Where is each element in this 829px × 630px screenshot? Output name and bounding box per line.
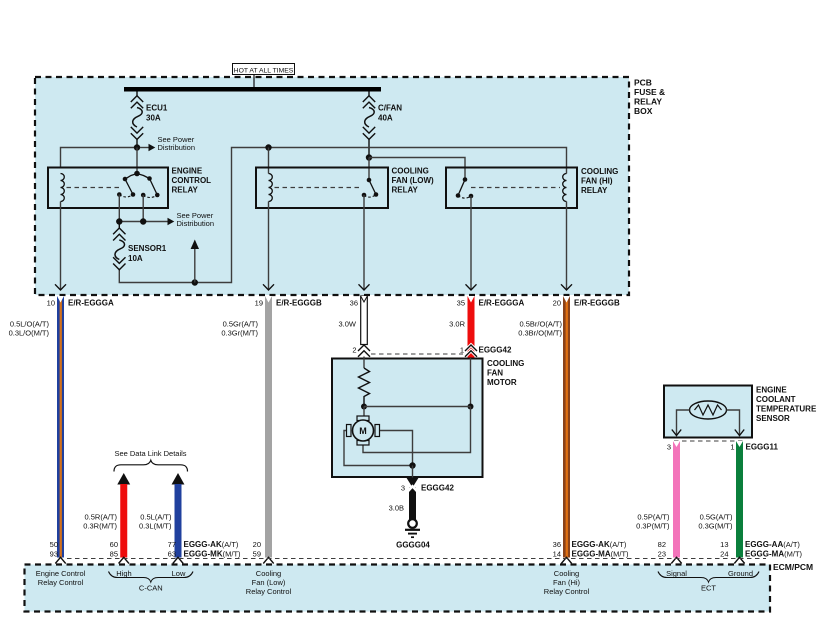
svg-text:E/R-EGGGA: E/R-EGGGA (68, 299, 114, 308)
node: junction on sensor1 loop (192, 279, 198, 285)
svg-text:0.3Br/O(M/T): 0.3Br/O(M/T) (518, 329, 562, 338)
svg-text:EGGG11: EGGG11 (746, 443, 779, 452)
svg-text:EGGG-AA(A/T): EGGG-AA(A/T) (745, 540, 800, 549)
svg-text:0.5Gr(A/T): 0.5Gr(A/T) (223, 320, 259, 329)
PCB fuse & relay box (35, 77, 665, 295)
svg-text:COOLING: COOLING (581, 167, 618, 176)
svg-text:13: 13 (720, 540, 728, 549)
wire: junction bar in motor (364, 406, 471, 408)
svg-text:Relay Control: Relay Control (544, 587, 590, 596)
svg-text:FAN (LOW): FAN (LOW) (392, 176, 435, 185)
motor connector pin 2 chevrons (358, 345, 370, 357)
wire: motor right tab to output (380, 431, 413, 466)
svg-text:C/FAN: C/FAN (378, 104, 402, 113)
wire W5: brown/orange 0.5Br/O from pin 20 to ECM pin 36/14 (561, 296, 571, 565)
svg-text:40A: 40A (378, 114, 393, 123)
motor connector pin 3 black arrow (406, 478, 418, 488)
wire: low relay coil down to pin 19 (268, 202, 270, 291)
engine coolant temperature sensor box (664, 386, 817, 438)
svg-text:0.3P(M/T): 0.3P(M/T) (636, 522, 670, 531)
motor connector dashed line (371, 353, 463, 355)
svg-text:EGGG-MA(M/T): EGGG-MA(M/T) (572, 550, 630, 559)
svg-text:0.5Br/O(A/T): 0.5Br/O(A/T) (519, 320, 562, 329)
svg-text:0.3L/O(M/T): 0.3L/O(M/T) (9, 329, 50, 338)
fuse C/FAN 40A (363, 92, 375, 158)
svg-text:59: 59 (253, 550, 261, 559)
switch contacts engine relay (134, 171, 140, 177)
wire: engine relay coil down to pin 10 (60, 202, 62, 291)
svg-text:0.5L(A/T): 0.5L(A/T) (140, 513, 172, 522)
svg-text:EGGG-MK(M/T): EGGG-MK(M/T) (184, 550, 242, 559)
svg-text:COOLANT: COOLANT (756, 395, 796, 404)
wire W1: blue/orange 0.5L/O from pin 10 to ECM pin 50/93 (55, 296, 65, 565)
svg-text:FUSE &: FUSE & (634, 87, 665, 97)
wire: rail down to low relay coil (268, 148, 270, 174)
wire W10: blue C-CAN low to ECM pin 77/63 (172, 473, 185, 565)
wire: sensor1 output loop up and right to relay coils (119, 148, 566, 283)
svg-text:2: 2 (352, 346, 356, 355)
wire: low relay contact down to pin 36 (363, 195, 365, 290)
sensor connector dashed line (674, 440, 744, 442)
cooling fan motor box (332, 359, 524, 478)
wire: sensor right lead to pin 1 (727, 410, 740, 435)
svg-text:RELAY: RELAY (172, 186, 199, 195)
bus bar (124, 87, 381, 92)
svg-text:3: 3 (667, 443, 671, 452)
svg-text:RELAY: RELAY (634, 97, 662, 107)
svg-text:FAN (HI): FAN (HI) (581, 177, 613, 186)
svg-text:3.0W: 3.0W (338, 320, 356, 329)
svg-text:E/R-EGGGB: E/R-EGGGB (276, 299, 322, 308)
ground GGGG04 (396, 519, 430, 549)
wire: motor output to pin 3 (412, 466, 414, 478)
node: ECU1 fuse output junction (134, 144, 140, 150)
wire: motor left tab loop to output junction (344, 431, 413, 466)
svg-text:MOTOR: MOTOR (487, 378, 517, 387)
node: C/FAN fuse output junction (366, 154, 372, 160)
svg-text:Relay Control: Relay Control (246, 587, 292, 596)
svg-text:EGGG-MA(M/T): EGGG-MA(M/T) (745, 550, 803, 559)
relay U1: engine control relay (48, 167, 211, 209)
svg-text:0.3G(M/T): 0.3G(M/T) (698, 522, 733, 531)
motor M1 symbol (347, 416, 380, 445)
svg-text:High: High (116, 569, 131, 578)
svg-text:ENGINE: ENGINE (172, 167, 203, 176)
svg-text:0.3R(M/T): 0.3R(M/T) (83, 522, 117, 531)
svg-text:3.0B: 3.0B (389, 504, 404, 513)
svg-text:0.5R(A/T): 0.5R(A/T) (84, 513, 117, 522)
svg-text:BOX: BOX (634, 106, 653, 116)
svg-text:0.3L(M/T): 0.3L(M/T) (139, 522, 172, 531)
svg-text:EGGG-AK(A/T): EGGG-AK(A/T) (184, 540, 239, 549)
wire: sensor left lead to pin 3 (677, 410, 690, 435)
connector pin 10 chevron (55, 284, 66, 290)
svg-text:Signal: Signal (666, 569, 687, 578)
wire: junction down to motor top tab (363, 407, 365, 417)
svg-text:ECM/PCM: ECM/PCM (773, 562, 813, 572)
svg-text:3: 3 (401, 484, 405, 493)
svg-text:19: 19 (255, 299, 263, 308)
svg-text:E/R-EGGGA: E/R-EGGGA (479, 299, 525, 308)
underbrace ECT (658, 572, 759, 583)
resistor in motor (359, 368, 370, 407)
svg-text:23: 23 (658, 550, 666, 559)
relay: cooling fan (hi) relay (446, 167, 618, 208)
wire W6: black 3.0B ground wire (409, 488, 416, 520)
svg-text:RELAY: RELAY (581, 186, 608, 195)
svg-text:Relay Control: Relay Control (38, 578, 84, 587)
wire: pin2 into resistor (363, 357, 365, 369)
HOT AT ALL TIMES label (233, 64, 295, 88)
svg-text:Cooling: Cooling (256, 569, 281, 578)
svg-text:0.5P(A/T): 0.5P(A/T) (637, 513, 670, 522)
svg-text:HOT AT ALL TIMES: HOT AT ALL TIMES (234, 68, 294, 75)
svg-text:CONTROL: CONTROL (172, 176, 212, 185)
svg-text:E/R-EGGGB: E/R-EGGGB (574, 299, 620, 308)
svg-text:0.5G(A/T): 0.5G(A/T) (700, 513, 733, 522)
svg-text:77: 77 (168, 540, 176, 549)
arrow up from sensor1 loop junction (191, 240, 199, 283)
node: pin1 junction (468, 404, 474, 410)
svg-text:82: 82 (658, 540, 666, 549)
fuse SENSOR1 10A (113, 222, 125, 270)
svg-text:See Data Link Details: See Data Link Details (114, 449, 186, 458)
switch of hi relay (463, 177, 468, 182)
svg-text:35: 35 (457, 299, 465, 308)
svg-text:36: 36 (350, 299, 358, 308)
svg-text:Ground: Ground (728, 569, 753, 578)
connector pin 35 chevron (466, 284, 477, 290)
fuse ECU1 30A (131, 92, 143, 148)
node: resistor output junction (361, 404, 367, 410)
svg-text:PCB: PCB (634, 78, 652, 88)
wire: pin1 down inside motor box (470, 358, 472, 407)
svg-text:36: 36 (553, 540, 561, 549)
wire: ECU1 output rail to engine relay coil (61, 148, 137, 168)
svg-text:1: 1 (730, 443, 734, 452)
wire: engine relay contact outputs (118, 195, 120, 222)
svg-text:RELAY: RELAY (392, 186, 419, 195)
coil of hi relay (563, 174, 567, 202)
svg-text:Fan (Low): Fan (Low) (252, 578, 286, 587)
node: motor output junction (409, 462, 415, 468)
svg-text:Cooling: Cooling (554, 569, 579, 578)
connector pin 36 chevron (359, 284, 370, 290)
wire W3: white 3.0W from pin 36 to motor pin 2 (361, 296, 368, 345)
coil of engine control relay (61, 174, 65, 202)
wire: ECU1 junction down to engine relay switch (136, 148, 138, 174)
svg-text:1: 1 (460, 346, 464, 355)
svg-text:COOLING: COOLING (487, 359, 524, 368)
overbrace for data link (114, 460, 188, 471)
svg-text:60: 60 (110, 540, 118, 549)
svg-text:GGGG04: GGGG04 (396, 541, 430, 550)
svg-text:Engine Control: Engine Control (36, 569, 86, 578)
wire: motor bottom loop from pin1 (363, 407, 471, 453)
svg-text:EGGG42: EGGG42 (479, 346, 512, 355)
coil of low relay (269, 174, 273, 202)
ECM/PCM box (25, 562, 814, 612)
svg-text:10A: 10A (128, 254, 143, 263)
svg-text:ECU1: ECU1 (146, 104, 168, 113)
svg-text:0.3Gr(M/T): 0.3Gr(M/T) (221, 329, 258, 338)
see power distribution arrow (lower) (168, 211, 215, 228)
svg-text:14: 14 (553, 550, 561, 559)
wire W7: pink 0.5P from sensor pin 3 to ECM pin 82/23 (671, 441, 681, 565)
wire: C/FAN junction right then down to cooling fan hi relay switch (369, 158, 465, 180)
node: junction on power rail for low relay coil (265, 144, 271, 150)
svg-text:Distribution: Distribution (158, 143, 196, 152)
svg-text:ECT: ECT (701, 584, 716, 593)
svg-text:93: 93 (50, 550, 58, 559)
svg-text:10: 10 (47, 299, 55, 308)
svg-text:TEMPERATURE: TEMPERATURE (756, 405, 817, 414)
svg-text:M: M (359, 426, 367, 436)
connector pin 19 chevron (263, 284, 274, 290)
wire: hi relay coil down to pin 20 (566, 202, 568, 291)
svg-text:30A: 30A (146, 114, 161, 123)
svg-text:COOLING: COOLING (392, 167, 429, 176)
connector pin 20 chevron (561, 284, 572, 290)
wire W9: red C-CAN high to ECM pin 60/85 (117, 473, 130, 565)
ECM connector dashed line (67, 558, 766, 560)
svg-text:85: 85 (110, 550, 118, 559)
underbrace C-CAN (109, 572, 194, 583)
svg-text:Fan (Hi): Fan (Hi) (553, 578, 581, 587)
svg-text:Low: Low (172, 569, 186, 578)
svg-text:20: 20 (553, 299, 561, 308)
svg-text:EGGG42: EGGG42 (421, 484, 454, 493)
motor connector pin 1 chevrons (red wire behind) (465, 345, 477, 357)
svg-text:ENGINE: ENGINE (756, 386, 787, 395)
wire W8: green 0.5G from sensor pin 1 to ECM pin 13/24 (734, 441, 744, 565)
svg-text:20: 20 (253, 540, 261, 549)
wire W4: red 3.0R from pin 35 to motor pin 1 (468, 296, 475, 358)
wire: C/FAN junction to cooling fan low relay switch (368, 158, 370, 181)
svg-text:3.0R: 3.0R (449, 320, 465, 329)
svg-text:50: 50 (50, 540, 58, 549)
svg-text:SENSOR1: SENSOR1 (128, 244, 167, 253)
svg-text:0.5L/O(A/T): 0.5L/O(A/T) (10, 320, 50, 329)
relay: cooling fan (low) relay (256, 167, 434, 209)
svg-text:Distribution: Distribution (177, 219, 215, 228)
svg-text:SENSOR: SENSOR (756, 414, 790, 423)
svg-text:EGGG-AK(A/T): EGGG-AK(A/T) (572, 540, 627, 549)
svg-text:24: 24 (720, 550, 728, 559)
see power distribution arrow (top) (140, 135, 195, 152)
wire W2: gray 0.5Gr from pin 19 to ECM pin 20/59 (263, 296, 273, 565)
svg-text:FAN: FAN (487, 369, 503, 378)
svg-text:C-CAN: C-CAN (139, 584, 163, 593)
wire: hi relay contact down to pin 35 (470, 196, 472, 290)
switch of low relay (367, 178, 372, 183)
svg-text:63: 63 (168, 550, 176, 559)
thermistor element in sensor (690, 401, 727, 419)
